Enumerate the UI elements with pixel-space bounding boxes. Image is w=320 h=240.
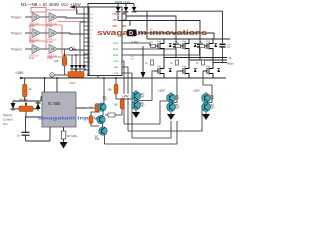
- diode D9: [82, 65, 86, 69]
- svg-text:547: 547: [211, 98, 216, 101]
- inverter N3: [32, 29, 41, 38]
- resistor Rg4: [175, 60, 178, 65]
- resistor Rg2: [150, 60, 153, 65]
- label Speed Control Pot: [3, 113, 13, 126]
- pot P2 100K: [68, 72, 84, 78]
- wire 555 output: [76, 107, 87, 109]
- svg-text:1K: 1K: [150, 41, 153, 44]
- transistor T3 BC547: [99, 127, 107, 135]
- wire +DC riser: [146, 11, 148, 39]
- wire VB3 tail: [138, 33, 214, 39]
- svg-text:Motor: Motor: [227, 62, 234, 66]
- ground (555): [63, 139, 65, 142]
- wire pair C out to Q4 gate: [174, 71, 180, 103]
- inverter N6: [49, 45, 58, 54]
- svg-text:557: 557: [211, 107, 216, 110]
- svg-text:F540: F540: [206, 66, 210, 68]
- IC2 driver IC body: [89, 7, 122, 76]
- mosfet Q5 high side col3: [203, 39, 213, 63]
- svg-text:547: 547: [176, 98, 181, 101]
- svg-text:IN2: IN2: [90, 26, 93, 28]
- transistor T1 BC547: [98, 103, 106, 111]
- resistor Rb (driver output): [108, 113, 115, 117]
- resistor R 1k: [24, 78, 26, 84]
- gate drive wires HO: [124, 43, 203, 138]
- svg-text:swagatam innovations: swagatam innovations: [97, 30, 207, 37]
- svg-text:Lo3: Lo3: [114, 71, 119, 75]
- watermark logo box: [127, 30, 137, 37]
- mosfet Q6 low side col3: [203, 63, 213, 79]
- svg-text:N3: N3: [34, 31, 38, 35]
- IC2 output pin labels (green): [113, 41, 118, 75]
- diode body Q5: [214, 44, 217, 47]
- svg-text:BA159 x 3nos: BA159 x 3nos: [115, 1, 131, 4]
- transistor T4 BC547: [132, 92, 141, 101]
- motor output lines: [164, 58, 227, 63]
- svg-text:4148: 4148: [47, 57, 53, 60]
- ground (pair D): [202, 114, 210, 120]
- svg-text:VB3: VB3: [112, 24, 117, 28]
- transistor T7 BC557: [167, 103, 176, 112]
- svg-text:N5: N5: [34, 47, 38, 51]
- svg-text:+ DC: + DC: [131, 41, 139, 45]
- svg-text:Lo2: Lo2: [114, 65, 119, 69]
- ground (pair C): [167, 114, 175, 120]
- resistor R 10K: [95, 104, 99, 112]
- resistor Rg1: [151, 44, 156, 47]
- inverter N4: [49, 29, 58, 38]
- svg-text:Ho1: Ho1: [113, 41, 118, 45]
- diode body Q1: [169, 44, 172, 47]
- inverter N2: [49, 13, 58, 22]
- IC2 VB pin labels (red): [112, 12, 117, 28]
- diode body Q6: [217, 69, 220, 72]
- cap C3 bootstrap: [220, 44, 226, 46]
- wire 555 out to drivers: [76, 78, 108, 144]
- diode body Q2: [169, 69, 172, 72]
- IC2 right pin stubs: [122, 14, 132, 73]
- svg-text:IN3: IN3: [90, 30, 93, 32]
- svg-text:Vcc +15V: Vcc +15V: [61, 2, 82, 7]
- IC 555 body: [42, 92, 76, 127]
- svg-text:1K: 1K: [175, 41, 178, 44]
- svg-text:VB1: VB1: [112, 12, 117, 16]
- svg-text:IC 555: IC 555: [48, 101, 61, 106]
- mosfet Q1 high side col1: [154, 39, 164, 58]
- terminal CKT: [70, 48, 73, 51]
- svg-text:+15V: +15V: [15, 71, 24, 75]
- diode D1 bootstrap: [116, 4, 121, 21]
- wire 555 reset: [44, 78, 46, 92]
- cap C1 bootstrap: [173, 44, 179, 46]
- driver pair B: +15V stub: [122, 94, 133, 98]
- svg-text:Pot: Pot: [3, 122, 8, 126]
- svg-text:4148: 4148: [29, 25, 35, 28]
- IC2 left pin names: [90, 14, 94, 72]
- svg-text:L2: L2: [90, 38, 92, 40]
- svg-text:Speed: Speed: [3, 113, 12, 117]
- resistor R 100k: [61, 131, 66, 139]
- ground (pair B): [132, 112, 140, 118]
- transistor T2 BC547: [97, 115, 105, 123]
- svg-text:1K: 1K: [199, 41, 202, 44]
- wire IC bottom stub: [97, 76, 99, 79]
- svg-text:Phase1: Phase1: [11, 15, 22, 19]
- svg-text:Phase3: Phase3: [11, 47, 22, 51]
- svg-text:+15V: +15V: [122, 94, 129, 98]
- svg-text:D: D: [129, 31, 133, 37]
- svg-text:N1—N6 = IC 4049: N1—N6 = IC 4049: [21, 2, 59, 7]
- svg-text:Control: Control: [3, 118, 13, 122]
- transistor T8 BC547: [202, 94, 211, 103]
- svg-text:1K: 1K: [170, 62, 173, 65]
- resistor Rg5: [200, 44, 205, 47]
- wire bottom loop: [26, 140, 51, 142]
- svg-text:N4: N4: [51, 31, 55, 35]
- diode D3 bootstrap: [132, 4, 137, 12]
- svg-text:Cd: Cd: [90, 58, 92, 60]
- svg-text:N6: N6: [51, 47, 55, 51]
- wire pair B out to Q2 gate: [139, 71, 155, 101]
- svg-text:10K: 10K: [108, 89, 113, 92]
- inverter N5: [32, 45, 41, 54]
- wire pair D out to Q6 gate: [203, 71, 212, 103]
- wires gate outputs to IC1: [58, 17, 89, 50]
- circled terminal D: [50, 73, 54, 77]
- mosfet Q4 low side col2: [179, 60, 189, 78]
- red pin labels under gates: [29, 23, 57, 61]
- svg-text:RV 100k: RV 100k: [67, 134, 78, 138]
- svg-text:IN1: IN1: [90, 22, 93, 24]
- mosfet Q2 low side col1: [154, 58, 164, 79]
- Vcc supply arrow wire: [70, 7, 88, 14]
- wire y55 tie: [62, 54, 88, 56]
- cap C2 bootstrap: [197, 44, 203, 46]
- IC2 left pin stubs: [77, 7, 90, 75]
- svg-text:D: D: [51, 74, 53, 78]
- svg-text:4148: 4148: [47, 25, 53, 28]
- svg-text:557: 557: [176, 107, 181, 110]
- svg-text:4148: 4148: [29, 41, 35, 44]
- svg-text:+15V: +15V: [193, 89, 200, 93]
- svg-text:Cb: Cb: [90, 62, 92, 64]
- red feedback wires: [30, 8, 86, 58]
- svg-text:VB2: VB2: [112, 18, 117, 22]
- +DC rail: [147, 38, 230, 40]
- wire VB bus 2: [129, 21, 131, 27]
- mosfet Q3 high side col2: [179, 39, 189, 60]
- ground rail: [21, 77, 226, 79]
- inverter N1: [32, 13, 41, 22]
- transistor T9 BC557: [202, 103, 211, 112]
- resistor Rg3: [176, 44, 181, 47]
- svg-text:547: 547: [141, 96, 146, 99]
- Vcc rail to bootstrap diodes: [88, 4, 134, 8]
- mixing diode bundle verticals: [72, 55, 76, 65]
- diode body Q4: [194, 69, 197, 72]
- diode D4 1N4148: [11, 103, 16, 109]
- PWM injection resistor 10K: [64, 49, 66, 56]
- wire 555 pins bottom: [49, 127, 51, 141]
- diode D8: [78, 65, 82, 69]
- FET ref labels: [157, 41, 210, 68]
- transistor T6 BC547: [167, 94, 176, 103]
- svg-text:1K: 1K: [145, 62, 148, 65]
- svg-text:Ho3: Ho3: [113, 53, 118, 57]
- bottom bus wires: [105, 78, 203, 144]
- svg-text:F540: F540: [182, 66, 186, 68]
- wire 555 Vcc: [56, 78, 58, 92]
- svg-text:Lo1: Lo1: [114, 59, 119, 63]
- resistor R 10K (LO1 leg): [114, 84, 118, 94]
- svg-text:1n: 1n: [17, 134, 21, 138]
- wire phase inputs and gate links: [25, 17, 49, 49]
- svg-text:Ho2: Ho2: [113, 47, 118, 51]
- svg-text:F540: F540: [157, 41, 161, 43]
- wire pot to 555: [26, 112, 42, 118]
- svg-text:1K: 1K: [196, 62, 199, 65]
- wire pwm bus: [54, 74, 68, 76]
- svg-text:547: 547: [103, 99, 108, 102]
- svg-text:F540: F540: [182, 41, 186, 43]
- svg-text:F540: F540: [206, 41, 210, 43]
- diode D5 1N4148: [36, 103, 41, 109]
- svg-text:4148: 4148: [47, 41, 53, 44]
- bundle long verticals: [76, 7, 78, 14]
- svg-text:10K: 10K: [114, 104, 119, 107]
- diode D2 bootstrap: [124, 4, 129, 17]
- svg-text:+15V: +15V: [158, 89, 165, 93]
- svg-text:F540: F540: [157, 66, 161, 68]
- cap C4 timing: [25, 117, 27, 132]
- svg-text:N1: N1: [34, 15, 38, 19]
- svg-text:10K: 10K: [89, 107, 94, 110]
- svg-text:Vdd: Vdd: [90, 14, 93, 16]
- pot P1 speed: [19, 106, 33, 112]
- -DC return wire with arrow to gnd rail: [142, 46, 144, 72]
- svg-text:L3: L3: [90, 42, 92, 44]
- wire VB bus 3 (top): [118, 11, 223, 43]
- wire diode loop: [13, 97, 43, 104]
- svg-text:547: 547: [95, 138, 100, 141]
- svg-text:Phase2: Phase2: [11, 31, 22, 35]
- svg-text:100K: 100K: [69, 81, 76, 85]
- svg-text:4148: 4148: [29, 57, 35, 60]
- resistor Rg6: [201, 60, 204, 65]
- svg-text:10K: 10K: [54, 59, 59, 63]
- diode body Q3: [194, 44, 197, 47]
- svg-text:N2: N2: [51, 15, 55, 19]
- resistor R 10K (driver leg): [120, 99, 124, 109]
- wire VB bus 1: [125, 16, 127, 20]
- svg-text:557: 557: [141, 105, 146, 108]
- diode D7: [74, 65, 78, 69]
- svg-text:1K: 1K: [84, 119, 87, 122]
- svg-text:L1: L1: [90, 34, 92, 36]
- resistor R 1K: [89, 116, 93, 124]
- LO pin drop wires: [123, 61, 125, 124]
- diode D6: [70, 65, 74, 69]
- transistor T5 BC557: [132, 101, 141, 110]
- svg-text:Ca: Ca: [90, 66, 92, 68]
- svg-text:Co: Co: [90, 70, 92, 72]
